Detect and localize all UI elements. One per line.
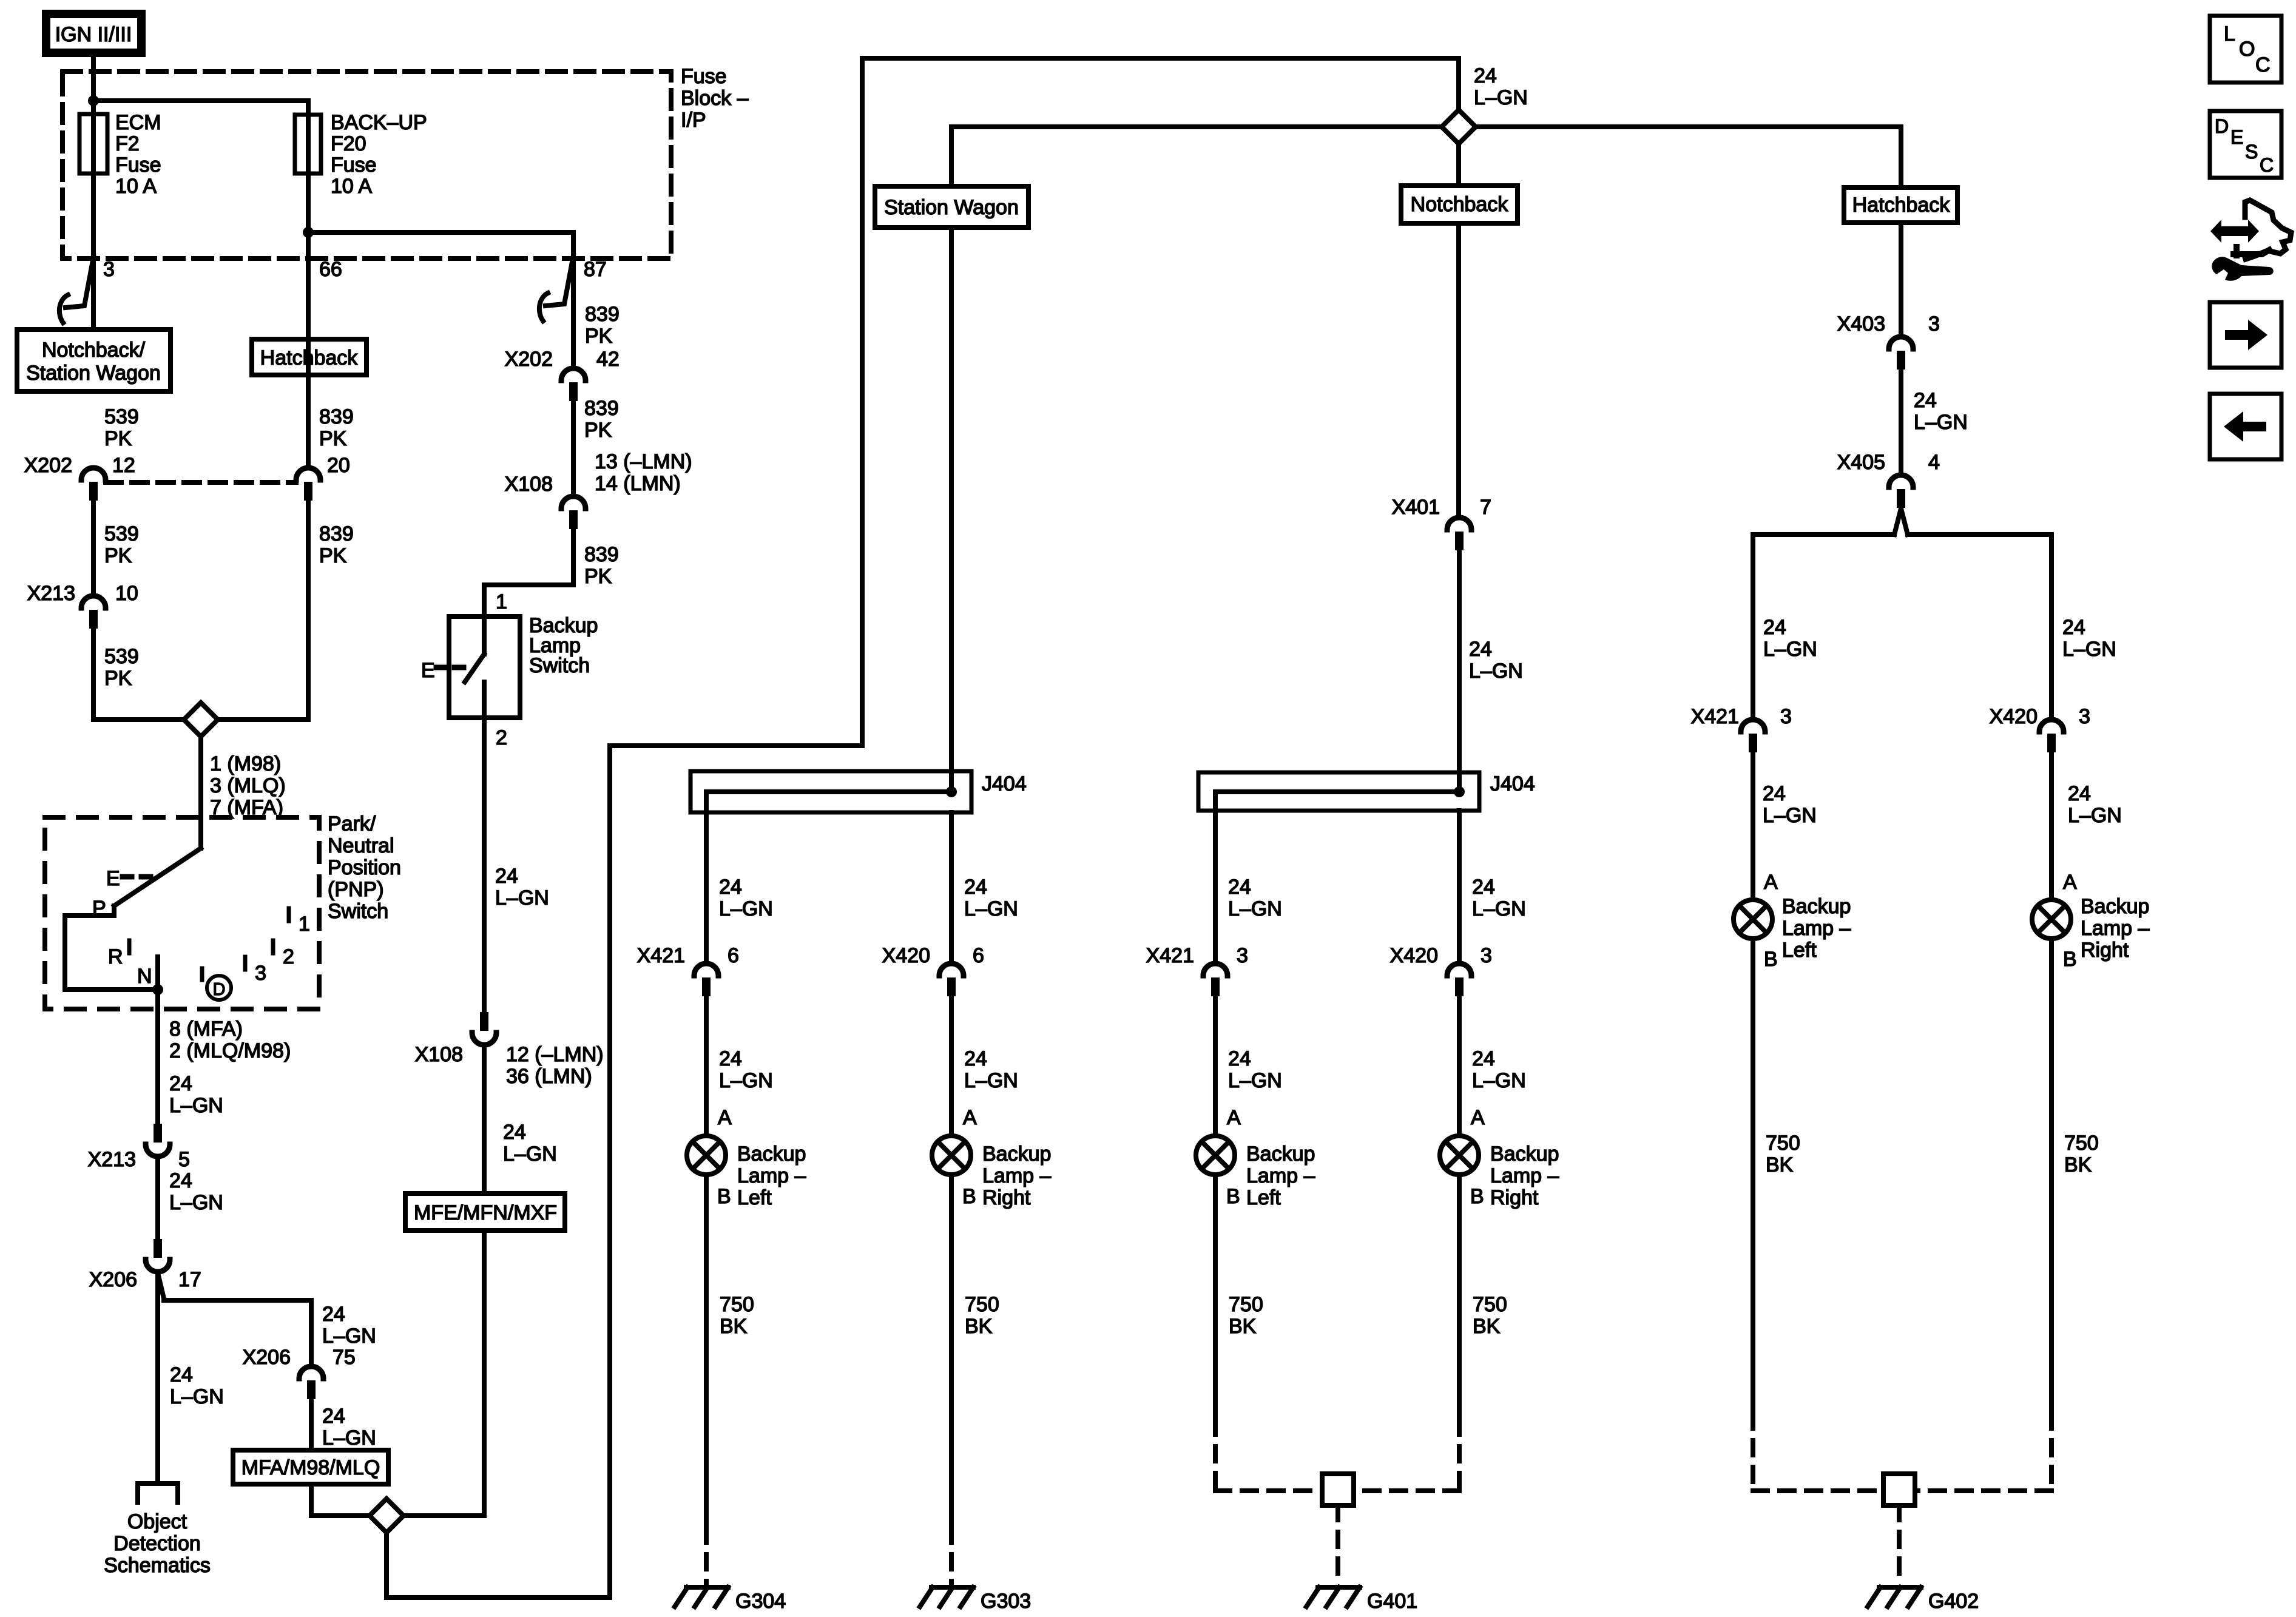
pin A label x1568 — [963, 1106, 977, 1129]
svg-text:L–GN: L–GN — [2068, 804, 2122, 827]
svg-text:1: 1 — [299, 913, 310, 936]
connector X202 pin 12 — [24, 454, 135, 501]
node junction dot N — [152, 984, 163, 995]
pin B label x2405 — [1470, 1185, 1484, 1208]
svg-text:Fuse: Fuse — [331, 154, 377, 177]
svg-text:3: 3 — [1481, 944, 1492, 967]
wire to lamp x1164 — [704, 997, 709, 1134]
label 24 L-GN above X420-6 x1568 — [964, 876, 1018, 920]
pin tick 3 — [245, 957, 266, 985]
svg-text:A: A — [718, 1106, 732, 1129]
wire X403 to X405 — [1899, 370, 1903, 473]
svg-text:B: B — [962, 1185, 976, 1208]
wire X202-42 to X108 — [571, 400, 576, 494]
svg-text:24: 24 — [170, 1363, 193, 1386]
label 8 (MFA) / 2 (MLQ/M98) — [169, 1018, 291, 1062]
contact R tick — [127, 940, 132, 953]
svg-text:5: 5 — [178, 1148, 190, 1171]
svg-text:L–GN: L–GN — [322, 1426, 376, 1450]
svg-text:X420: X420 — [1990, 705, 2038, 728]
svg-text:IGN II/III: IGN II/III — [55, 23, 132, 46]
icon wrench — [2212, 257, 2274, 281]
label 539 PK (A3) — [104, 645, 139, 690]
switch pin2 wire — [482, 682, 487, 718]
svg-text:PK: PK — [585, 325, 613, 348]
pin 1 label switch — [496, 590, 507, 613]
label 24 L-GN above X421-3 x2003 — [1228, 876, 1282, 920]
label P — [92, 897, 106, 920]
svg-text:Fuse: Fuse — [115, 154, 161, 177]
icon box LOC — [2210, 16, 2281, 83]
svg-text:Neutral: Neutral — [328, 834, 394, 857]
connector X202 pin 42 — [505, 348, 620, 401]
backup lamp Right x1568 — [932, 1136, 971, 1175]
fuse block dashed box — [62, 72, 671, 258]
label 539 PK (A1) — [104, 405, 139, 450]
switch blade — [465, 654, 484, 682]
label 24 L-GN above X421-6 x1164 — [719, 876, 773, 920]
pin A label HBR — [2063, 871, 2077, 894]
wire X206-17 down to fork — [155, 1274, 160, 1482]
svg-text:X202: X202 — [505, 348, 553, 371]
svg-text:36 (LMN): 36 (LMN) — [506, 1065, 592, 1088]
svg-text:X213: X213 — [27, 582, 75, 605]
pin B label x1568 — [962, 1185, 976, 1208]
wire J404R right drop — [1457, 811, 1462, 961]
switch pin1 stub — [482, 616, 487, 654]
wire HBR lamp down — [2049, 940, 2054, 1414]
svg-text:14 (LMN): 14 (LMN) — [595, 472, 681, 495]
svg-text:Position: Position — [328, 856, 401, 879]
svg-text:B: B — [717, 1185, 731, 1208]
svg-text:B: B — [2063, 948, 2077, 971]
svg-text:13 (–LMN): 13 (–LMN) — [595, 450, 692, 473]
svg-text:3: 3 — [1237, 944, 1248, 967]
label Backup Lamp - Left x1164 — [737, 1143, 806, 1209]
svg-text:24: 24 — [495, 865, 518, 888]
label 24 L-GN (branch2) — [322, 1405, 376, 1450]
svg-text:24: 24 — [1474, 64, 1497, 87]
label Backup Lamp - Left (HB) — [1782, 895, 1851, 962]
connector X405 pin 4 — [1837, 451, 1940, 508]
wire bottom loop to top rail — [387, 58, 1459, 1598]
svg-text:L–GN: L–GN — [964, 1069, 1018, 1092]
wire lamp down x1568 — [949, 1176, 954, 1528]
option box MFA/M98/MLQ — [233, 1450, 388, 1484]
svg-text:10 A: 10 A — [331, 175, 372, 198]
svg-text:20: 20 — [327, 454, 350, 477]
svg-text:BK: BK — [2064, 1153, 2092, 1176]
svg-text:E: E — [106, 867, 120, 890]
svg-text:Hatchback: Hatchback — [260, 346, 359, 370]
svg-text:Lamp –: Lamp – — [1490, 1164, 1559, 1187]
svg-text:A: A — [1227, 1106, 1241, 1129]
wire diamond to Station Wagon — [951, 127, 1440, 186]
wire F20 to pin 87 column — [308, 232, 573, 366]
label Park/Neutral Position (PNP) Switch — [328, 812, 401, 923]
node splice diamond (bottom) — [370, 1499, 403, 1533]
svg-text:24: 24 — [1763, 782, 1786, 805]
wire N down — [155, 990, 160, 1124]
backup lamp Left x2003 — [1196, 1136, 1235, 1175]
pin B label HBL — [1764, 948, 1778, 971]
pin B label x1164 — [717, 1185, 731, 1208]
svg-text:X405: X405 — [1837, 451, 1885, 474]
svg-text:F2: F2 — [115, 132, 140, 155]
wire through fuse F2 column — [91, 114, 96, 329]
icon double arrow — [2210, 220, 2259, 243]
svg-text:Fuse: Fuse — [681, 65, 727, 88]
svg-text:12: 12 — [112, 454, 135, 477]
svg-text:PK: PK — [104, 427, 132, 450]
svg-text:X213: X213 — [88, 1148, 136, 1171]
label 839 PK (C2) — [584, 397, 619, 442]
svg-text:D: D — [213, 980, 226, 999]
svg-text:BK: BK — [720, 1315, 748, 1338]
svg-text:750: 750 — [965, 1293, 999, 1316]
switch blade PNP — [114, 848, 201, 906]
node junction dot under F20 — [303, 227, 314, 238]
svg-text:L–GN: L–GN — [1474, 86, 1528, 109]
wire lamp down x1164 — [704, 1176, 709, 1528]
svg-text:Notchback: Notchback — [1411, 193, 1509, 216]
pin A label x1164 — [718, 1106, 732, 1129]
label 24 L-GN (HB1) — [1914, 389, 1968, 434]
svg-text:4: 4 — [1928, 451, 1940, 474]
label 839 PK (B1) — [319, 405, 354, 450]
wire diamond to PNP switch — [198, 738, 203, 848]
svg-text:3: 3 — [103, 258, 115, 281]
svg-text:PK: PK — [104, 544, 132, 567]
wire IGN to fuse F2 — [91, 57, 96, 114]
svg-text:8 (MFA): 8 (MFA) — [169, 1018, 243, 1041]
svg-text:X421: X421 — [1691, 705, 1739, 728]
option box Station Wagon — [875, 186, 1028, 228]
svg-text:Backup: Backup — [1490, 1143, 1559, 1166]
label E with dashes — [106, 867, 150, 890]
label 24 L-GN below X421-6 x1164 — [719, 1047, 773, 1092]
label fuse F20 — [331, 111, 427, 198]
contact P wire — [65, 906, 158, 990]
backup lamp right (hatchback) — [2032, 900, 2071, 939]
label 24 L-GN (rail) — [1474, 64, 1528, 109]
connector X420 pin 6 (x1568) — [882, 944, 984, 996]
svg-text:B: B — [1470, 1185, 1484, 1208]
svg-text:839: 839 — [585, 303, 620, 326]
backup lamp left (hatchback) — [1734, 900, 1772, 939]
option box Hatchback (left) — [252, 339, 366, 375]
svg-text:2: 2 — [496, 726, 507, 749]
wire Hatchback to X403 — [1899, 223, 1903, 334]
svg-text:C: C — [2255, 53, 2271, 76]
wire lamp down x2405 — [1457, 1176, 1462, 1420]
svg-text:Station Wagon: Station Wagon — [26, 362, 161, 385]
connector X108 pin 12/36 — [415, 1012, 604, 1088]
svg-text:Object: Object — [127, 1510, 187, 1533]
connector X421 pin 6 (x1164) — [637, 944, 739, 996]
svg-text:L–GN: L–GN — [1228, 1069, 1282, 1092]
wire J404L right drop — [949, 812, 954, 961]
svg-text:BK: BK — [965, 1315, 993, 1338]
svg-text:L: L — [2224, 22, 2235, 46]
wire B X202-20 to diamond — [219, 501, 308, 720]
wire X213-5 to X206-17 — [155, 1158, 160, 1239]
svg-text:66: 66 — [319, 258, 342, 281]
svg-text:N: N — [137, 965, 152, 988]
wire X108 to MFE box — [482, 1045, 487, 1193]
label Fuse Block - I/P — [681, 65, 749, 132]
svg-text:L–GN: L–GN — [1469, 660, 1523, 683]
wire to lamp x1568 — [949, 997, 954, 1134]
label Backup Lamp Switch — [529, 614, 598, 677]
svg-text:839: 839 — [319, 405, 354, 428]
wire Notchback to X401 — [1456, 223, 1461, 515]
svg-text:24: 24 — [503, 1121, 526, 1144]
svg-text:Right: Right — [982, 1186, 1031, 1209]
svg-text:P: P — [92, 897, 106, 920]
svg-text:E: E — [2230, 126, 2243, 148]
svg-text:Lamp –: Lamp – — [737, 1164, 806, 1187]
wire J404R left drop — [1213, 792, 1218, 961]
svg-text:Schematics: Schematics — [104, 1554, 211, 1577]
label 24 L-GN above X420-3 x2405 — [1472, 876, 1526, 920]
label Backup Lamp - Right x1568 — [982, 1143, 1051, 1209]
svg-text:A: A — [1764, 871, 1778, 894]
svg-text:24: 24 — [964, 876, 987, 899]
svg-text:L–GN: L–GN — [495, 886, 549, 910]
svg-text:Lamp –: Lamp – — [1246, 1164, 1315, 1187]
pin 3 label — [103, 258, 115, 281]
svg-text:L–GN: L–GN — [1228, 897, 1282, 920]
svg-text:J404: J404 — [1490, 772, 1535, 795]
svg-text:24: 24 — [2068, 782, 2091, 805]
svg-text:Block –: Block – — [681, 87, 749, 110]
svg-text:BK: BK — [1229, 1315, 1257, 1338]
wire diamond to Hatchback — [1477, 127, 1901, 187]
svg-text:24: 24 — [1763, 616, 1786, 639]
svg-text:539: 539 — [104, 645, 139, 668]
connector X420 pin 3 (HB) — [1990, 705, 2090, 752]
svg-text:X206: X206 — [243, 1346, 291, 1369]
svg-text:B: B — [1764, 948, 1778, 971]
svg-text:17: 17 — [178, 1268, 201, 1291]
svg-text:Detection: Detection — [113, 1532, 201, 1555]
svg-text:L–GN: L–GN — [170, 1385, 224, 1408]
terminal hook at pin 3 — [59, 257, 93, 323]
svg-text:F20: F20 — [331, 132, 366, 155]
label 750 BK x1568 — [965, 1293, 999, 1338]
label Backup Lamp - Right (HB) — [2081, 895, 2149, 962]
svg-text:L–GN: L–GN — [1472, 1069, 1526, 1092]
connector X206 pin 75 — [243, 1346, 356, 1399]
pin tick 2 — [273, 940, 294, 968]
wire A X202-12 to X213-10 — [91, 501, 96, 593]
wire branch to X206-75 — [158, 1275, 311, 1364]
svg-text:X420: X420 — [1390, 944, 1438, 967]
svg-text:(PNP): (PNP) — [328, 878, 384, 901]
wire Station Wagon to J404 — [949, 228, 954, 792]
contact N stub — [155, 957, 160, 990]
label 24 L-GN (HBL2) — [1763, 782, 1817, 827]
svg-text:750: 750 — [2064, 1132, 2099, 1155]
wire X108 jog to switch — [484, 530, 573, 616]
node splice diamond (PNP feed) — [184, 703, 218, 737]
svg-text:L–GN: L–GN — [2062, 638, 2116, 661]
ground G401 — [1306, 1587, 1417, 1613]
svg-text:L–GN: L–GN — [169, 1094, 223, 1117]
svg-text:L–GN: L–GN — [719, 897, 773, 920]
icon box arrow left — [2210, 394, 2281, 459]
svg-text:Backup: Backup — [1782, 895, 1851, 918]
svg-text:L–GN: L–GN — [1914, 411, 1968, 434]
svg-text:Left: Left — [737, 1186, 772, 1209]
svg-text:E: E — [421, 659, 435, 682]
wire lamp down x2003 — [1213, 1176, 1218, 1420]
pin tick 1 — [289, 908, 310, 936]
svg-text:750: 750 — [1473, 1293, 1507, 1316]
svg-text:I/P: I/P — [681, 109, 706, 132]
dashed drop to G304 — [704, 1528, 709, 1584]
option box MFE/MFN/MXF — [405, 1193, 565, 1230]
label Backup Lamp - Left x2003 — [1246, 1143, 1315, 1209]
svg-text:24: 24 — [719, 1047, 742, 1070]
connector X213 pin 10 — [27, 582, 138, 629]
option box Hatchback (right) — [1844, 187, 1957, 223]
svg-text:A: A — [963, 1106, 977, 1129]
connector X421 pin 3 (x2003) — [1146, 944, 1248, 996]
svg-text:X202: X202 — [24, 454, 72, 477]
option box Notchback/Station Wagon — [17, 329, 171, 391]
svg-text:X403: X403 — [1837, 312, 1885, 336]
svg-text:A: A — [2063, 871, 2077, 894]
svg-text:2: 2 — [283, 945, 294, 968]
svg-text:L–GN: L–GN — [1763, 638, 1817, 661]
ground G304 — [675, 1587, 786, 1613]
indicator D circle — [202, 968, 231, 1000]
svg-text:24: 24 — [1472, 876, 1495, 899]
svg-text:C: C — [2260, 154, 2274, 176]
svg-text:839: 839 — [584, 543, 619, 566]
svg-text:12 (–LMN): 12 (–LMN) — [506, 1043, 604, 1066]
svg-text:3: 3 — [2079, 705, 2090, 728]
connector X420 pin 3 (x2405) — [1390, 944, 1492, 996]
label fuse F2 — [115, 111, 161, 198]
wire to lamp x2003 — [1213, 997, 1218, 1134]
label 24 L-GN (branch1) — [322, 1303, 376, 1348]
pin 2 label switch — [496, 726, 507, 749]
svg-text:L–GN: L–GN — [1763, 804, 1817, 827]
dashed drop to G303 — [949, 1528, 954, 1584]
svg-text:24: 24 — [964, 1047, 987, 1070]
svg-text:R: R — [108, 945, 123, 968]
icon box DESC — [2210, 111, 2281, 178]
svg-text:10 A: 10 A — [115, 175, 157, 198]
backup lamp Right x2405 — [1440, 1136, 1479, 1175]
wire HBL lamp down — [1751, 940, 1755, 1414]
label 750 BK x2405 — [1473, 1293, 1507, 1338]
svg-text:Backup: Backup — [737, 1143, 806, 1166]
svg-text:X108: X108 — [415, 1043, 463, 1066]
dashed link X202 — [106, 480, 296, 485]
label 24 L-GN (HBR) — [2062, 616, 2116, 661]
pin 87 label — [584, 258, 607, 281]
svg-text:750: 750 — [720, 1293, 754, 1316]
svg-text:2 (MLQ/M98): 2 (MLQ/M98) — [169, 1039, 291, 1062]
svg-text:G401: G401 — [1367, 1590, 1417, 1613]
pin A label HBL — [1764, 871, 1778, 894]
svg-text:X420: X420 — [882, 944, 930, 967]
label 750 BK x1164 — [720, 1293, 754, 1338]
svg-text:L–GN: L–GN — [1472, 897, 1526, 920]
svg-text:O: O — [2239, 38, 2255, 61]
svg-text:X108: X108 — [505, 473, 553, 496]
svg-text:PK: PK — [319, 544, 347, 567]
label 24 L-GN below X421-3 x2003 — [1228, 1047, 1282, 1092]
svg-text:839: 839 — [584, 397, 619, 420]
icon box arrow right — [2210, 302, 2281, 368]
wire A X213-10 to diamond — [93, 629, 183, 720]
label Backup Lamp - Right x2405 — [1490, 1143, 1559, 1209]
wire to lamp x2405 — [1457, 997, 1462, 1134]
svg-text:839: 839 — [319, 522, 354, 545]
label 24 L-GN below X420-3 x2405 — [1472, 1047, 1526, 1092]
svg-text:L–GN: L–GN — [322, 1325, 376, 1348]
connector X421 pin 3 (HB) — [1691, 705, 1792, 752]
dashed collector to G401 — [1215, 1420, 1459, 1584]
svg-text:L–GN: L–GN — [169, 1191, 223, 1214]
svg-text:750: 750 — [1766, 1132, 1800, 1155]
pin 66 label — [319, 258, 342, 281]
icon panel outline — [2245, 200, 2291, 259]
label 24 L-GN (Sw2) — [503, 1121, 557, 1166]
label 24 L-GN (NB) — [1469, 638, 1523, 683]
connector X401 pin 7 — [1392, 496, 1491, 550]
svg-text:BK: BK — [1473, 1315, 1501, 1338]
splice pack J404 (right) — [1198, 772, 1535, 811]
label 24 L-GN (Sw1) — [495, 865, 549, 910]
label R — [108, 945, 123, 968]
svg-text:Lamp –: Lamp – — [2081, 917, 2149, 940]
PNP switch dashed box — [45, 817, 319, 1009]
svg-text:D: D — [2215, 115, 2229, 137]
connector X206 pin 17 — [89, 1239, 201, 1291]
svg-text:Park/: Park/ — [328, 812, 376, 836]
svg-text:42: 42 — [596, 348, 620, 371]
label pins 13/14 — [595, 450, 692, 495]
wire MFE box down to diamond — [405, 1230, 484, 1516]
svg-text:24: 24 — [322, 1303, 345, 1326]
wire MFA box to diamond — [311, 1484, 368, 1516]
wire to HB right lamp — [2049, 753, 2054, 898]
svg-text:L–GN: L–GN — [719, 1069, 773, 1092]
node junction dot under IGN — [88, 95, 99, 106]
svg-text:3: 3 — [1928, 312, 1940, 336]
svg-text:B: B — [1226, 1185, 1240, 1208]
pin A label x2003 — [1227, 1106, 1241, 1129]
wire through fuse F20 column — [306, 115, 311, 465]
svg-text:MFE/MFN/MXF: MFE/MFN/MXF — [414, 1201, 557, 1224]
label 24 L-GN (N2) — [169, 1169, 223, 1214]
svg-text:G402: G402 — [1928, 1590, 1979, 1613]
svg-text:X401: X401 — [1392, 496, 1440, 519]
svg-text:24: 24 — [169, 1169, 192, 1192]
svg-text:Right: Right — [2081, 939, 2129, 962]
svg-text:Station Wagon: Station Wagon — [884, 196, 1019, 219]
svg-text:BACK–UP: BACK–UP — [331, 111, 427, 134]
svg-text:L–GN: L–GN — [964, 897, 1018, 920]
svg-text:PK: PK — [584, 565, 612, 588]
svg-text:PK: PK — [319, 427, 347, 450]
